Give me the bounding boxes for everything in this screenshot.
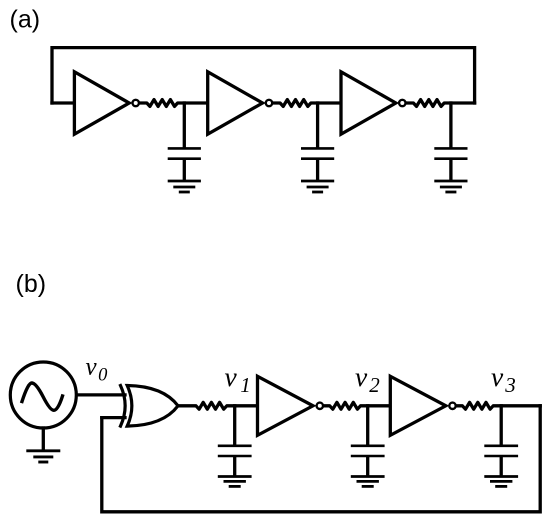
svg-text:(b): (b): [16, 270, 47, 298]
svg-text:(a): (a): [10, 5, 41, 33]
